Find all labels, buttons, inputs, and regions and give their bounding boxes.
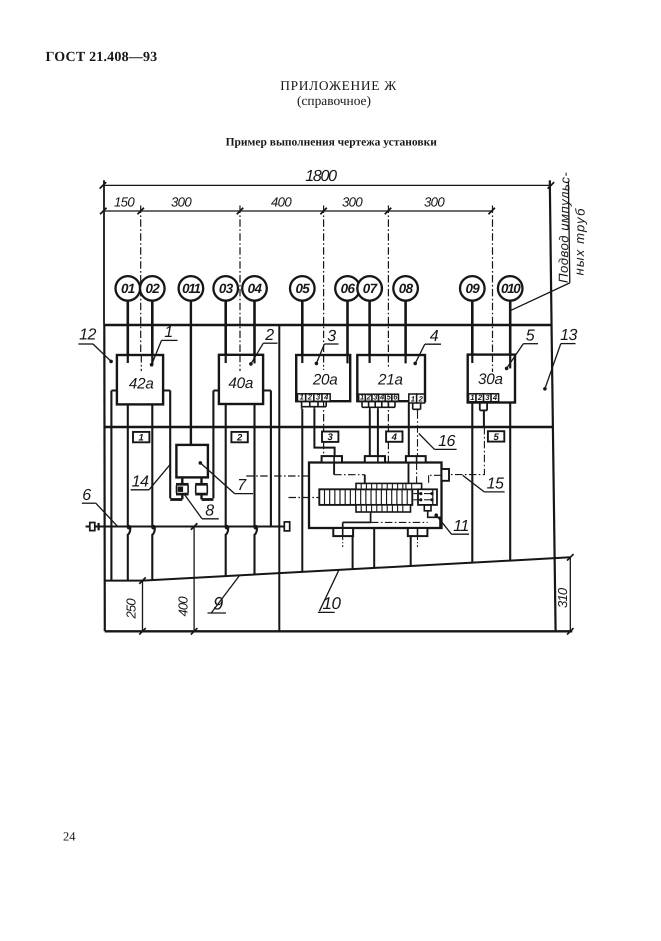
svg-text:6: 6	[82, 487, 91, 504]
svg-text:5: 5	[526, 328, 535, 345]
svg-text:010: 010	[501, 281, 521, 296]
svg-text:1: 1	[300, 393, 304, 402]
svg-text:12: 12	[79, 327, 96, 344]
svg-text:300: 300	[424, 194, 445, 209]
svg-text:2: 2	[236, 433, 243, 444]
svg-text:8: 8	[205, 502, 214, 519]
svg-text:42a: 42a	[129, 375, 154, 392]
svg-text:4: 4	[391, 432, 398, 443]
svg-text:24: 24	[63, 830, 76, 844]
svg-text:07: 07	[363, 281, 378, 296]
svg-text:300: 300	[342, 194, 363, 209]
svg-text:400: 400	[271, 194, 292, 209]
svg-text:(справочное): (справочное)	[297, 93, 371, 108]
svg-text:1: 1	[470, 393, 474, 402]
svg-text:1: 1	[411, 394, 415, 403]
svg-text:21a: 21a	[377, 372, 403, 389]
svg-text:150: 150	[114, 194, 135, 209]
svg-text:11: 11	[453, 518, 469, 535]
svg-text:Пример выполнения чертежа уста: Пример выполнения чертежа установки	[226, 136, 438, 148]
svg-text:10: 10	[323, 594, 342, 613]
svg-text:300: 300	[171, 194, 192, 209]
svg-text:06: 06	[341, 281, 356, 296]
svg-text:2: 2	[264, 327, 274, 344]
svg-text:ГОСТ 21.408—93: ГОСТ 21.408—93	[46, 50, 158, 65]
svg-text:011: 011	[182, 281, 200, 296]
svg-text:5: 5	[493, 432, 499, 443]
svg-text:1800: 1800	[305, 168, 337, 185]
svg-text:14: 14	[132, 473, 149, 490]
svg-text:20a: 20a	[312, 372, 338, 389]
svg-text:08: 08	[399, 281, 414, 296]
svg-text:3: 3	[328, 432, 334, 443]
svg-text:9: 9	[213, 594, 223, 614]
svg-text:16: 16	[438, 433, 455, 450]
svg-text:4: 4	[430, 328, 439, 345]
svg-text:3: 3	[327, 328, 336, 345]
svg-text:05: 05	[295, 281, 310, 296]
svg-text:400: 400	[175, 596, 190, 617]
svg-text:03: 03	[219, 281, 234, 296]
svg-text:40a: 40a	[228, 375, 253, 392]
svg-text:1: 1	[360, 393, 364, 402]
svg-text:04: 04	[248, 281, 263, 296]
svg-text:250: 250	[124, 598, 139, 620]
svg-text:ных труб: ных труб	[572, 207, 588, 275]
svg-text:1: 1	[139, 433, 144, 444]
svg-text:30a: 30a	[478, 371, 503, 388]
svg-text:15: 15	[487, 476, 504, 493]
svg-text:01: 01	[121, 281, 135, 296]
svg-text:ПРИЛОЖЕНИЕ Ж: ПРИЛОЖЕНИЕ Ж	[280, 78, 397, 93]
svg-text:310: 310	[555, 587, 570, 608]
svg-text:Подвод импульс-: Подвод импульс-	[556, 171, 573, 283]
svg-text:13: 13	[560, 327, 577, 344]
svg-text:09: 09	[465, 281, 480, 296]
svg-text:02: 02	[145, 281, 160, 296]
svg-text:1: 1	[164, 324, 172, 341]
